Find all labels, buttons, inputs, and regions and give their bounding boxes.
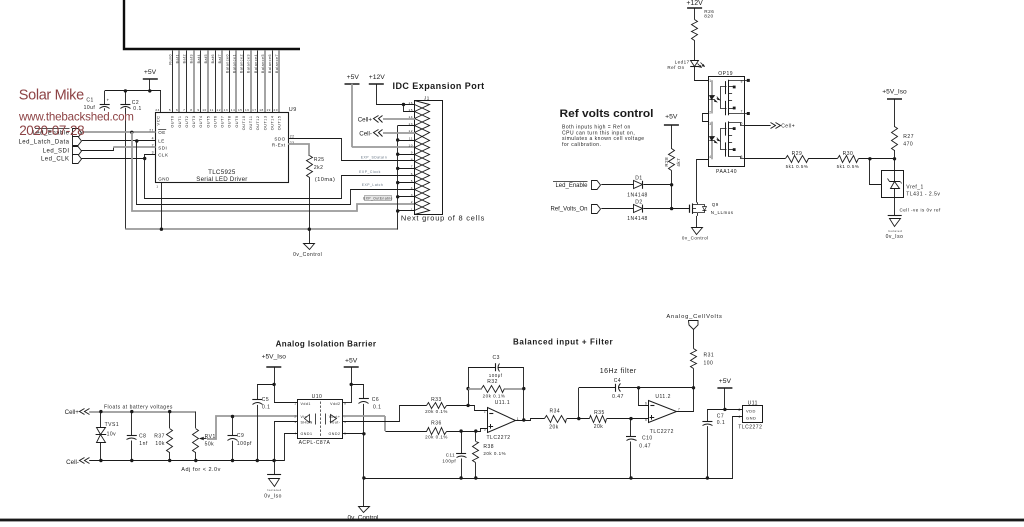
- svg-text:0v_Iso: 0v_Iso: [886, 234, 904, 240]
- wire GND2 to rail: [343, 433, 364, 435]
- svg-text:EXP_Clock: EXP_Clock: [359, 170, 381, 174]
- wire Vout+ to R36: [343, 416, 427, 432]
- pin OUT6 label: [214, 116, 218, 128]
- svg-text:+5V_Iso: +5V_Iso: [882, 89, 907, 96]
- svg-text:R30: R30: [843, 151, 854, 157]
- pin 23 number: [290, 141, 295, 145]
- svg-text:2020-07-28: 2020-07-28: [19, 123, 84, 138]
- svg-text:Bat3: Bat3: [190, 54, 194, 63]
- wire R27 to Vref_1: [894, 150, 896, 171]
- svg-text:OP19: OP19: [718, 71, 733, 77]
- pin VCC label: [155, 116, 160, 126]
- node Adj note: [181, 467, 221, 473]
- power +5V (U10): [344, 357, 359, 403]
- pin 16 number: [245, 108, 249, 112]
- wire OP19 pin5 to R29: [744, 158, 785, 160]
- wire Q9 source to ground: [696, 216, 698, 228]
- svg-text:15: 15: [409, 108, 413, 112]
- wire D2 to gate: [643, 208, 671, 210]
- svg-text:16Hz filter: 16Hz filter: [600, 368, 637, 375]
- node Bat4 label: [197, 54, 201, 63]
- pin SDI label: [158, 146, 167, 151]
- node Led_CLK port: [41, 155, 82, 164]
- svg-text:820: 820: [704, 14, 713, 19]
- node junction C9 bottom: [231, 459, 234, 462]
- svg-text:N_LLmos: N_LLmos: [711, 210, 734, 215]
- wire C6 to control gnd: [363, 404, 365, 506]
- pin 1 number (OP19): [709, 79, 711, 83]
- svg-text:R33: R33: [431, 397, 442, 403]
- op-amp U10 body (isolation amp): [298, 394, 343, 446]
- node 16Hz filter note: [600, 368, 637, 375]
- svg-text:+5V: +5V: [144, 69, 157, 76]
- svg-text:C10: C10: [642, 435, 653, 441]
- node Bat5 label: [204, 54, 208, 63]
- svg-text:OUT13: OUT13: [263, 116, 267, 131]
- node Bat1 label: [175, 54, 179, 63]
- node junction C5 bottom: [256, 459, 259, 462]
- wire GND U11 to rail: [733, 417, 743, 479]
- node junction GND U9: [160, 228, 163, 231]
- svg-text:TLC5925: TLC5925: [208, 169, 236, 176]
- pin 7 number: [183, 108, 185, 112]
- pin 5 number (OP19): [741, 155, 743, 159]
- wire bus net Balance0: [229, 51, 231, 113]
- wire R36 to noninv: [447, 429, 488, 432]
- pin OUT3 label: [192, 116, 196, 128]
- wire J1 common stub pin11: [398, 140, 415, 142]
- svg-text:20: 20: [274, 108, 278, 112]
- wire U11.1 output: [516, 419, 545, 421]
- node junction R37 bottom: [168, 459, 171, 462]
- capacitor C10: [626, 419, 653, 478]
- svg-text:Led17: Led17: [675, 59, 690, 64]
- capacitor C3: [468, 355, 524, 378]
- svg-text:Vdd1: Vdd1: [301, 402, 311, 406]
- resistor R38: [473, 431, 507, 478]
- wire Led_Latch_Data to LE: [82, 140, 156, 142]
- node Bat3 label: [190, 54, 194, 63]
- svg-text:OUT10: OUT10: [242, 116, 246, 131]
- svg-text:6: 6: [741, 122, 743, 126]
- node Led_Latch_Data port: [18, 137, 81, 146]
- node junction C4 tap: [577, 417, 580, 420]
- svg-text:+5V: +5V: [719, 378, 732, 385]
- svg-text:TVS1: TVS1: [105, 422, 120, 428]
- node Cell+ port (bottom): [65, 409, 90, 417]
- svg-text:+12V: +12V: [686, 0, 703, 7]
- svg-text:Bat2: Bat2: [183, 54, 187, 63]
- wire Vout- to R33: [343, 406, 427, 422]
- wire bus net Balance1: [235, 51, 237, 113]
- wire Vdd1 feed: [274, 402, 298, 404]
- wire filter rail: [364, 478, 733, 480]
- node U10 internals: [305, 402, 337, 437]
- wire C4 to inv2: [639, 388, 649, 406]
- svg-text:8: 8: [741, 79, 743, 83]
- op-amp U11.1: [484, 400, 519, 441]
- svg-text:Balance1: Balance1: [232, 54, 236, 73]
- node junction rail left: [362, 476, 365, 479]
- svg-text:5: 5: [169, 108, 171, 112]
- wire R31 to port: [693, 329, 695, 349]
- node Solar Mike note: [19, 88, 84, 104]
- pin J1-2: [411, 197, 430, 211]
- svg-text:6: 6: [411, 172, 413, 176]
- svg-text:8: 8: [190, 108, 192, 112]
- svg-text:1: 1: [156, 184, 158, 188]
- resistor R28: [664, 149, 681, 171]
- svg-text:13: 13: [224, 108, 228, 112]
- pin 5 number: [169, 108, 171, 112]
- svg-text:Bat5: Bat5: [204, 54, 208, 63]
- pin OUT15 label: [278, 116, 282, 131]
- wire Cell+ to J1 pin14: [383, 118, 415, 120]
- node IDC heading: [393, 81, 485, 91]
- diode D1: [627, 175, 648, 198]
- wire bus net Bat7: [221, 51, 223, 113]
- svg-text:U11: U11: [748, 400, 758, 406]
- svg-text:OUT9: OUT9: [235, 116, 239, 128]
- svg-text:Isolated: Isolated: [888, 229, 903, 233]
- pin OUT1 label: [178, 116, 182, 128]
- wire J1 common stub pin13: [398, 125, 415, 127]
- svg-text:Adj for < 2.0v: Adj for < 2.0v: [181, 467, 221, 473]
- svg-text:Bat1: Bat1: [175, 54, 179, 63]
- node junction J1 pin9: [396, 153, 399, 156]
- power +5V (R28): [664, 114, 679, 149]
- svg-text:C11: C11: [446, 453, 455, 458]
- pin 20 number: [274, 108, 278, 112]
- pin OUT7 label: [221, 116, 225, 128]
- svg-text:6: 6: [645, 401, 647, 405]
- wire Cell- to J1 pin12: [383, 132, 415, 134]
- wire (lower block outline): [0, 519, 1024, 522]
- svg-text:19: 19: [266, 108, 270, 112]
- svg-text:24: 24: [155, 108, 159, 112]
- pin 17 number: [252, 108, 256, 112]
- svg-text:Next group of 8 cells: Next group of 8 cells: [401, 214, 485, 223]
- node junction TVS top: [99, 410, 102, 413]
- node junction C6 tap: [350, 383, 353, 386]
- pin 19 number: [266, 108, 270, 112]
- svg-text:7: 7: [741, 110, 743, 114]
- power +12V (J1): [369, 74, 386, 84]
- node junction J1 pin1: [396, 209, 399, 212]
- node Vref note: [900, 208, 942, 213]
- svg-text:www.thebackshed.com: www.thebackshed.com: [18, 110, 134, 123]
- svg-text:GND: GND: [746, 416, 756, 421]
- node Balance0 label: [225, 54, 229, 73]
- node Floats note: [104, 404, 173, 410]
- node junction J1 pin5: [396, 181, 399, 184]
- svg-text:Ref_Volts_On: Ref_Volts_On: [550, 207, 587, 213]
- svg-text:OUT4: OUT4: [199, 116, 203, 128]
- svg-text:+5V_Iso: +5V_Iso: [262, 353, 287, 360]
- svg-text:5k1 0.5%: 5k1 0.5%: [837, 164, 860, 169]
- wire bus net Balance5: [264, 51, 266, 113]
- node Ref volts note: [562, 125, 645, 148]
- wire Led_CLK to CLK: [82, 155, 156, 159]
- resistor R34: [545, 408, 567, 430]
- wire J1 common vertical: [397, 126, 399, 230]
- svg-text:2: 2: [484, 410, 486, 414]
- svg-text:OUT7: OUT7: [221, 116, 225, 128]
- wire iso gnd drop: [274, 461, 276, 475]
- node junction output R31: [692, 386, 695, 389]
- pin Vout+ label: [329, 415, 347, 419]
- resistor R26: [692, 9, 715, 41]
- svg-text:GND2: GND2: [329, 432, 341, 436]
- node junction iso gnd: [272, 459, 275, 462]
- svg-text:Cell+: Cell+: [65, 409, 80, 416]
- node junction C10 tap: [629, 417, 632, 420]
- svg-text:OUT3: OUT3: [192, 116, 196, 128]
- svg-text:3: 3: [484, 427, 486, 431]
- svg-text:Cell+: Cell+: [781, 124, 795, 130]
- svg-text:100pf: 100pf: [237, 441, 252, 447]
- pin Vout- label: [330, 420, 347, 424]
- svg-text:11: 11: [409, 136, 413, 140]
- wire ground bus U9 section: [125, 228, 397, 230]
- svg-text:Cell-: Cell-: [359, 131, 372, 138]
- svg-text:20k: 20k: [549, 425, 559, 431]
- svg-text:Bat7: Bat7: [218, 54, 222, 63]
- wire J1 common stub pin7: [398, 168, 415, 170]
- pin Vin+ label: [294, 415, 307, 419]
- node junction R25 gnd: [308, 228, 311, 231]
- wire Ref_Volts_On to D2: [601, 208, 633, 210]
- pin J1-1: [411, 204, 430, 215]
- svg-text:Analog_CellVolts: Analog_CellVolts: [666, 314, 722, 320]
- pin 8 number (OP19): [741, 79, 743, 83]
- wire bus net Bat2: [186, 51, 188, 113]
- node junction GND2: [362, 432, 365, 435]
- pin OP19 pin7 stub: [744, 112, 749, 115]
- svg-text:+5V: +5V: [665, 114, 678, 121]
- svg-text:Balance7: Balance7: [275, 54, 279, 73]
- pin J1-12: [409, 126, 430, 141]
- svg-text:Cell+: Cell+: [358, 116, 373, 123]
- pin 4 number: [152, 137, 154, 141]
- svg-text:OUT12: OUT12: [256, 116, 260, 131]
- wire bus net Bat1: [178, 51, 180, 113]
- transistor OP19 MOSFET B: [721, 121, 745, 158]
- node junction R32 right: [522, 387, 525, 390]
- svg-text:6: 6: [176, 108, 178, 112]
- svg-text:PAA140: PAA140: [716, 169, 737, 175]
- wire bus net Balance7: [278, 51, 280, 113]
- power +5V_Iso (U10): [262, 353, 287, 403]
- node EXP_SDataIn label: [361, 155, 387, 159]
- resistor R36: [425, 421, 448, 440]
- node EXP_Latch label: [362, 183, 383, 187]
- wire U11.2 output: [677, 388, 694, 412]
- pin J1-9: [411, 148, 430, 162]
- svg-text:OUT0: OUT0: [171, 116, 175, 128]
- svg-text:50k: 50k: [205, 442, 215, 448]
- pin J1-4: [411, 183, 430, 197]
- svg-text:TL431 - 2.5v: TL431 - 2.5v: [906, 192, 940, 198]
- wire +5V to J1 pin10: [352, 146, 415, 148]
- resistor R37: [154, 412, 172, 461]
- node junction +12V: [402, 103, 405, 106]
- svg-text:1: 1: [294, 401, 296, 405]
- node EXP_OutEnable label: [363, 196, 393, 201]
- svg-text:Ref On: Ref On: [667, 65, 684, 70]
- svg-text:R-Ext: R-Ext: [272, 143, 286, 148]
- wire (upper block outline): [124, 0, 300, 49]
- wire Cell+ top rail: [89, 411, 196, 413]
- pin J1-11: [409, 133, 430, 148]
- svg-text:11: 11: [210, 108, 214, 112]
- pin 12 number: [217, 108, 221, 112]
- node Led_Enable port: [32, 129, 81, 138]
- svg-text:OUT14: OUT14: [270, 116, 274, 131]
- wire bus net Balance2: [243, 51, 245, 113]
- svg-text:+: +: [107, 97, 110, 102]
- svg-text:20k: 20k: [594, 424, 604, 430]
- svg-text:7: 7: [183, 108, 185, 112]
- node junction D1: [670, 183, 673, 186]
- node junction D2: [670, 207, 673, 210]
- svg-text:D2: D2: [635, 199, 642, 205]
- svg-text:9: 9: [411, 151, 413, 155]
- svg-text:OUT1: OUT1: [178, 116, 182, 128]
- svg-text:EXP_Latch: EXP_Latch: [362, 183, 383, 187]
- wire U9 GND drop: [161, 183, 163, 230]
- resistor R29: [786, 151, 809, 169]
- pin SHDN label: [294, 420, 312, 424]
- svg-text:R35: R35: [594, 410, 605, 416]
- capacitor C11: [442, 431, 466, 478]
- svg-text:9: 9: [197, 108, 199, 112]
- svg-text:0.47: 0.47: [639, 444, 651, 450]
- wire +12V to J1 pin15: [404, 105, 415, 112]
- wire VDD feed: [725, 409, 742, 411]
- svg-text:10v: 10v: [107, 431, 117, 437]
- pin R-Ext label: [272, 143, 286, 148]
- pin J1-15: [409, 105, 430, 119]
- svg-text:OUT6: OUT6: [214, 116, 218, 128]
- svg-text:Bat4: Bat4: [197, 54, 201, 63]
- power +12V (R26): [686, 0, 703, 19]
- pin J1-8: [411, 155, 430, 169]
- svg-text:Led_Latch_Data: Led_Latch_Data: [18, 139, 69, 145]
- svg-text:Serial LED Driver: Serial LED Driver: [196, 176, 247, 183]
- svg-text:OUT8: OUT8: [228, 116, 232, 128]
- pin J1-13: [409, 119, 430, 133]
- svg-text:C7: C7: [717, 414, 724, 420]
- node Balance7 label: [275, 54, 279, 73]
- pin 11 number: [210, 108, 214, 112]
- wire J1 common stub pin3: [398, 196, 415, 198]
- power +5V_Iso (right): [882, 89, 907, 127]
- node website note: [18, 110, 134, 123]
- wire bus net Bat5: [207, 51, 209, 113]
- svg-text:3: 3: [152, 151, 154, 155]
- pin OUT9 label: [235, 116, 239, 128]
- node EXP_Clock label: [359, 170, 381, 174]
- node junction inv: [466, 404, 469, 407]
- svg-text:20k 0.1%: 20k 0.1%: [425, 409, 448, 414]
- node Ref volts control heading: [560, 108, 654, 120]
- power +5V (J1): [345, 74, 360, 147]
- pin 14 number: [231, 108, 235, 112]
- node Bat2 label: [183, 54, 187, 63]
- wire C4 row to output: [639, 387, 694, 389]
- capacitor C4: [579, 378, 639, 419]
- svg-text:+12V: +12V: [369, 74, 386, 81]
- svg-text:0v_Iso: 0v_Iso: [264, 493, 282, 499]
- svg-text:C3: C3: [492, 355, 499, 361]
- pin OP19 pin8 stub: [744, 79, 749, 82]
- node junction C8 bottom: [130, 459, 133, 462]
- svg-text:IDC Expansion Port: IDC Expansion Port: [393, 81, 485, 91]
- node Balance5 label: [261, 54, 265, 73]
- pin 6 number: [176, 108, 178, 112]
- resistor R31: [691, 349, 715, 388]
- pin J1-10: [409, 141, 430, 155]
- node junction J1 pin7: [396, 167, 399, 170]
- svg-text:LE: LE: [158, 139, 165, 144]
- pin 3 number: [152, 151, 154, 155]
- wire R26 to Led17: [694, 40, 696, 60]
- node junction ref: [868, 157, 871, 160]
- pin 18 number: [259, 108, 263, 112]
- svg-text:Isolated: Isolated: [267, 488, 282, 492]
- node Cell- port (J1): [359, 130, 382, 138]
- node date note: [19, 123, 84, 138]
- diode TVS1: [96, 412, 120, 461]
- capacitor C2: [120, 91, 141, 112]
- svg-text:C1: C1: [86, 97, 93, 103]
- svg-text:EXP_OutEnable: EXP_OutEnable: [363, 197, 393, 201]
- wire OP19 pin2-pin3 jumper: [703, 114, 709, 122]
- pin GND label: [156, 177, 170, 189]
- svg-text:10: 10: [202, 108, 206, 112]
- svg-text:Vdd2: Vdd2: [330, 402, 340, 406]
- svg-text:8: 8: [739, 408, 741, 412]
- pin J1-3: [411, 190, 430, 204]
- diode OP19 internal LED A: [709, 80, 720, 113]
- pin SDO label: [274, 136, 285, 141]
- wire EXP_Latch: [137, 141, 415, 205]
- svg-text:U10: U10: [312, 394, 323, 400]
- wire R28 to junctions: [671, 170, 673, 208]
- wire R30 to Vref: [859, 158, 895, 160]
- pin J1-5: [411, 176, 430, 190]
- pin OUT8 label: [228, 116, 232, 128]
- pin J1-16: [409, 101, 430, 112]
- resistor R32: [468, 379, 524, 399]
- node junction RV1 bottom: [194, 459, 197, 462]
- capacitor C8: [127, 412, 148, 461]
- pin 13 number: [224, 108, 228, 112]
- svg-text:Balanced input + Filter: Balanced input + Filter: [513, 338, 613, 347]
- pin GND2 label: [329, 432, 347, 436]
- svg-text:OUT5: OUT5: [206, 116, 210, 128]
- pin 2 number: [152, 144, 154, 148]
- node junction OE: [130, 131, 133, 134]
- node junction C5 tap: [272, 383, 275, 386]
- capacitor C5: [252, 385, 274, 461]
- wire J1 common stub pin5: [398, 182, 415, 184]
- svg-text:12: 12: [217, 108, 221, 112]
- pin 15 number: [238, 108, 242, 112]
- wire bus net Run0: [172, 51, 174, 113]
- pin OE label: [158, 130, 166, 136]
